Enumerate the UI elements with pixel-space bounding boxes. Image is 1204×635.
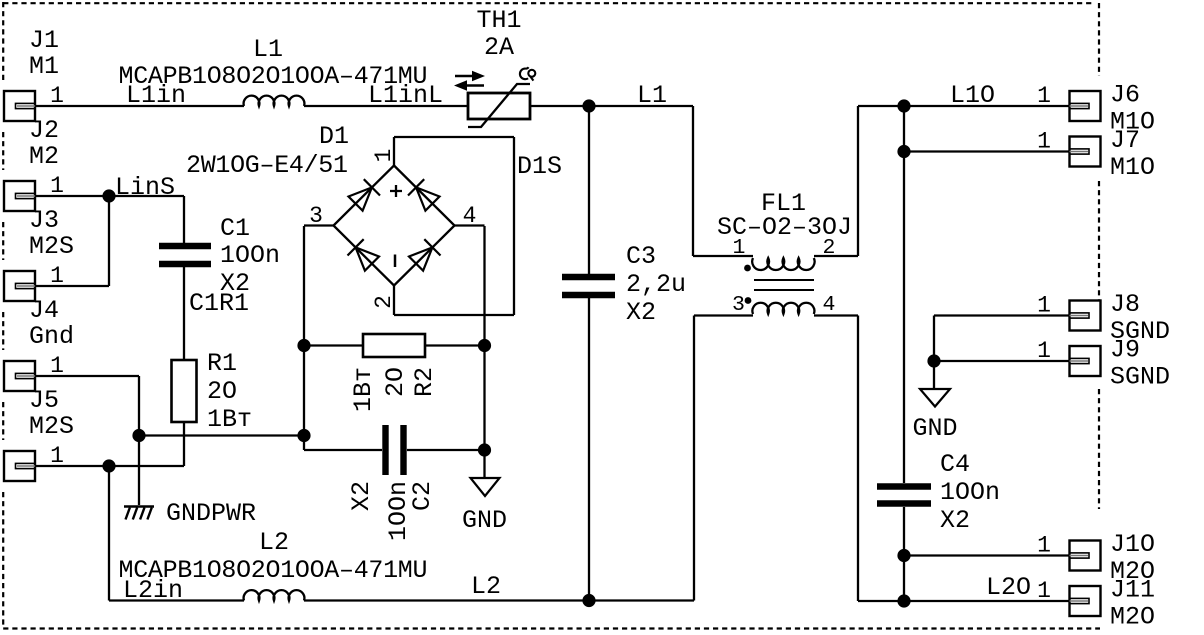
- wire net GNDPWR down to symbol: [138, 376, 140, 505]
- inductor L2: [244, 590, 305, 600]
- wire net LinS down to C1: [183, 196, 185, 243]
- svg-text:1: 1: [50, 353, 64, 379]
- wire net D1S pin 1 up: [393, 137, 395, 166]
- svg-text:1: 1: [1037, 533, 1051, 559]
- wire C2 left: [304, 449, 382, 451]
- svg-text:1: 1: [50, 443, 64, 469]
- wire R2 right: [425, 344, 485, 346]
- wire net L1 into FL1 pin 1: [693, 255, 753, 257]
- svg-text:LinS: LinS: [115, 173, 175, 202]
- svg-text:C4: C4: [940, 450, 970, 479]
- connector J6: [1070, 91, 1101, 121]
- wire net L2in bottom to L2: [109, 599, 244, 601]
- svg-text:Gnd: Gnd: [29, 322, 74, 351]
- connector J3: [4, 271, 35, 301]
- svg-text:GNDPWR: GNDPWR: [166, 499, 256, 528]
- junction node SGND: [927, 354, 940, 367]
- svg-text:3: 3: [309, 203, 323, 229]
- svg-text:1: 1: [371, 149, 397, 163]
- transformer FL1 windings and core: [752, 258, 814, 314]
- svg-text:TH1: TH1: [476, 6, 521, 35]
- wire net D1S bottom: [394, 314, 514, 316]
- wire net L1O to J6: [858, 105, 1070, 107]
- svg-text:1: 1: [1037, 129, 1051, 155]
- junction node LinS: [102, 189, 115, 202]
- wire net L2O C4 down: [903, 507, 905, 601]
- connector J5: [4, 451, 35, 481]
- svg-text:J4: J4: [29, 296, 59, 325]
- svg-text:2: 2: [823, 236, 836, 260]
- svg-text:2,2u: 2,2u: [626, 270, 686, 299]
- wire net L2O FL1 pin 4 down: [857, 316, 859, 602]
- connector J2: [4, 181, 35, 211]
- svg-text:X2: X2: [940, 506, 970, 535]
- wire R2 left: [304, 344, 363, 346]
- svg-text:J3: J3: [29, 206, 59, 235]
- svg-text:L1inL: L1inL: [368, 81, 443, 110]
- FL1 phase dot pin 3: [745, 297, 752, 304]
- wire net D1S pin 2 down: [393, 286, 395, 316]
- svg-text:J8: J8: [1110, 290, 1140, 319]
- junction node L1 at C3: [582, 99, 595, 112]
- svg-text:1Вт: 1Вт: [207, 405, 252, 434]
- svg-text:4: 4: [463, 203, 477, 229]
- svg-text:D1: D1: [319, 122, 349, 151]
- connector J8: [1070, 301, 1101, 331]
- junction node L2in at J5: [102, 459, 115, 472]
- junction node bridge pin4 R2: [478, 339, 491, 352]
- svg-text:M1: M1: [29, 52, 59, 81]
- svg-text:C1R1: C1R1: [189, 289, 249, 318]
- wire R1 bottom pin: [183, 422, 185, 466]
- wire net SGND J9 run: [934, 360, 1070, 362]
- capacitor C3: [562, 277, 615, 295]
- wire net L2in down: [108, 466, 110, 601]
- svg-text:J11: J11: [1110, 576, 1155, 605]
- wire net LinS J3 run: [35, 285, 109, 287]
- svg-text:M2S: M2S: [29, 412, 74, 441]
- svg-text:1: 1: [733, 236, 746, 260]
- svg-text:1: 1: [50, 263, 64, 289]
- svg-text:R1: R1: [207, 349, 237, 378]
- wire net LinS J2 run: [35, 195, 184, 197]
- svg-text:L2: L2: [259, 528, 289, 557]
- svg-text:L1: L1: [637, 81, 667, 110]
- wire C2 right: [407, 449, 485, 451]
- thermistor TH1 body: [468, 84, 530, 127]
- wire net GNDPWR J4 run: [35, 375, 139, 377]
- svg-text:L2in: L2in: [123, 576, 183, 605]
- D1 plus mark: [390, 185, 402, 197]
- capacitor C2: [386, 425, 404, 475]
- svg-text:J9: J9: [1110, 336, 1140, 365]
- wire net L1O vertical to C4: [903, 106, 905, 483]
- bridge rectifier D1: [334, 166, 455, 286]
- svg-text:1: 1: [50, 173, 64, 199]
- connector J9: [1070, 346, 1101, 376]
- connector J11: [1070, 586, 1101, 616]
- wire bridge pin 3 stub: [304, 224, 334, 226]
- inductor L1: [244, 96, 305, 106]
- svg-text:2A: 2A: [484, 33, 514, 62]
- svg-text:L2O: L2O: [986, 573, 1031, 602]
- svg-text:1: 1: [1037, 578, 1051, 604]
- wire net L2in J5 to R1: [35, 465, 184, 467]
- junction node L2O at J11: [897, 594, 910, 607]
- wire net L1O FL1 pin 2 out: [814, 255, 858, 257]
- svg-text:2O: 2O: [381, 367, 410, 397]
- svg-text:SGND: SGND: [1110, 363, 1170, 392]
- wire net C1R1 C1 to R1: [183, 267, 185, 360]
- connector J4: [4, 361, 35, 391]
- connector J10: [1070, 541, 1101, 571]
- wire net L2 into FL1 pin 3: [694, 314, 753, 316]
- svg-text:1OOn: 1OOn: [940, 478, 1000, 507]
- svg-text:1: 1: [1037, 293, 1051, 319]
- svg-text:R2: R2: [410, 367, 439, 397]
- svg-text:1Вт: 1Вт: [349, 367, 378, 412]
- ground GND right: [920, 389, 950, 407]
- ground GND near C2: [471, 478, 500, 496]
- wire bridge pin 4 stub: [455, 224, 485, 226]
- junction node L2O at J10: [897, 549, 910, 562]
- wire net L1inL L1 to TH1: [304, 105, 468, 107]
- svg-text:J1: J1: [29, 26, 59, 55]
- svg-text:1OOn: 1OOn: [220, 241, 280, 270]
- wire net SGND down to GND: [933, 316, 935, 390]
- svg-text:2: 2: [371, 295, 397, 309]
- svg-text:2W1OG–E4/51: 2W1OG–E4/51: [186, 151, 348, 180]
- TH1 temperature symbol: [520, 67, 535, 80]
- svg-text:M2O: M2O: [1110, 603, 1155, 632]
- wire bridge pin 3 vertical: [303, 226, 305, 450]
- svg-text:J6: J6: [1110, 81, 1140, 110]
- resistor R1: [172, 360, 197, 422]
- svg-text:J1O: J1O: [1110, 530, 1155, 559]
- wire net L2 up to FL1 pin 3: [693, 316, 695, 601]
- svg-text:X2: X2: [626, 298, 656, 327]
- svg-text:L1O: L1O: [950, 81, 995, 110]
- junction node bridge pin3 R2: [297, 339, 310, 352]
- resistor R2: [363, 334, 425, 357]
- wire net D1S top: [394, 136, 514, 138]
- svg-text:L1: L1: [253, 35, 283, 64]
- svg-text:1: 1: [1037, 338, 1051, 364]
- svg-text:J2: J2: [29, 116, 59, 145]
- wire net L1 down to FL1 pin 1: [692, 106, 694, 256]
- junction node L1O at J6: [897, 99, 910, 112]
- wire net L1O to J7: [904, 150, 1070, 152]
- svg-text:J7: J7: [1110, 126, 1140, 155]
- capacitor C1: [159, 246, 211, 264]
- wire net D1S right side: [513, 137, 515, 315]
- wire net SGND J8 run: [934, 314, 1070, 316]
- svg-text:2O: 2O: [207, 377, 237, 406]
- junction node GNDPWR: [132, 429, 145, 442]
- svg-text:L1in: L1in: [126, 81, 186, 110]
- wire net L2O FL1 pin 4 out: [814, 314, 858, 316]
- svg-text:L2: L2: [471, 572, 501, 601]
- svg-text:3: 3: [732, 293, 745, 317]
- capacitor C4: [877, 487, 931, 504]
- svg-text:C1: C1: [220, 214, 250, 243]
- svg-text:C3: C3: [626, 242, 656, 271]
- wire net L1in J1 to L1: [35, 105, 244, 107]
- svg-text:4: 4: [823, 293, 836, 317]
- wire net L1O up: [857, 106, 859, 256]
- svg-text:GND: GND: [912, 414, 957, 443]
- svg-text:1: 1: [50, 83, 64, 109]
- FL1 phase dot pin 1: [744, 265, 751, 272]
- wire bridge pin 4 vertical to GND: [483, 226, 485, 478]
- junction node GND at C2: [478, 443, 491, 456]
- svg-text:GND: GND: [462, 506, 507, 535]
- wire net L2O bottom run to J11: [858, 600, 1070, 602]
- power ground GNDPWR symbol: [124, 507, 154, 520]
- wire net L2O to J10: [904, 554, 1070, 556]
- wire net LinS J3 up to junction: [108, 196, 110, 286]
- connector J7: [1070, 137, 1101, 167]
- svg-text:C2: C2: [408, 481, 437, 511]
- svg-text:X2: X2: [347, 481, 376, 511]
- svg-text:M1O: M1O: [1110, 153, 1155, 182]
- junction node L1O at J7: [897, 145, 910, 158]
- svg-text:M2S: M2S: [29, 232, 74, 261]
- TH1 current arrows: [454, 71, 485, 91]
- junction node GNDPWR C2: [297, 429, 310, 442]
- junction node L2 at C3: [582, 594, 595, 607]
- wire net L2 bottom run: [304, 599, 694, 601]
- D1 minus mark: [394, 255, 397, 268]
- wire net L1 C3 top: [588, 106, 590, 274]
- wire net L2 C3 bottom: [588, 296, 590, 601]
- wire net L1 TH1 to corner: [530, 105, 693, 107]
- wire net GNDPWR to bridge node: [139, 434, 304, 436]
- svg-text:D1S: D1S: [517, 152, 562, 181]
- svg-text:1: 1: [1037, 83, 1051, 109]
- connector J1: [4, 91, 35, 121]
- svg-text:J5: J5: [29, 386, 59, 415]
- svg-text:M2: M2: [29, 142, 59, 171]
